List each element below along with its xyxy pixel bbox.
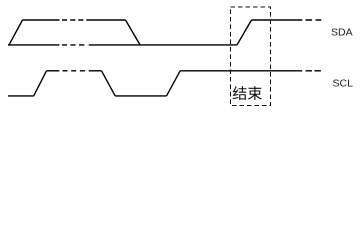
svg-text:SDA: SDA [331,27,353,39]
wire SCL stop rising edge [167,71,181,96]
wire SCL high line mid segment [89,70,102,72]
wire SCL low line mid segment [115,95,166,97]
wire SDA low line right segment [89,44,237,46]
wire SDA high line mid segment [86,19,125,21]
wire SCL high line left segment [47,70,60,72]
wire SDA stop rising edge [237,20,252,45]
wire SDA high line right segment [252,19,303,21]
wire SDA high line right dashes [306,19,322,21]
wire SDA rising edge left [9,20,23,45]
wire SCL falling edge [102,71,116,96]
wire SDA low line left segment [8,44,60,46]
wire SCL low line left segment [8,95,34,97]
wire SDA low line dashed segment [62,44,84,46]
label jieshu char 1 (jie) [233,86,247,100]
svg-text:SCL: SCL [333,78,354,90]
wire SDA falling edge [126,20,141,45]
stop condition dashed box [231,7,271,106]
wire SCL rising edge left [34,71,47,96]
wire SCL high line right dashes [306,70,321,72]
wire SCL high line right segment [180,70,302,72]
wire SDA high line left segment [23,19,60,21]
wire SDA high line dashed segment [62,19,83,21]
wire SCL high line dashed segment [63,70,85,72]
label jieshu char 2 (shu) [248,86,262,100]
